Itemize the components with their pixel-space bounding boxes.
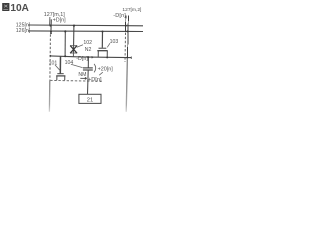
svg-text:102: 102 <box>83 40 92 46</box>
svg-text:+D[n]: +D[n] <box>53 18 67 24</box>
svg-text:103: 103 <box>110 39 119 45</box>
svg-text:-D[n]: -D[n] <box>113 13 126 19</box>
svg-text:+D[n]: +D[n] <box>88 77 102 83</box>
svg-text:104: 104 <box>65 60 74 66</box>
svg-text:10A: 10A <box>10 3 29 14</box>
svg-text:+20[n]: +20[n] <box>98 66 114 72</box>
svg-text:21: 21 <box>87 98 93 104</box>
svg-text:N2: N2 <box>85 47 92 53</box>
